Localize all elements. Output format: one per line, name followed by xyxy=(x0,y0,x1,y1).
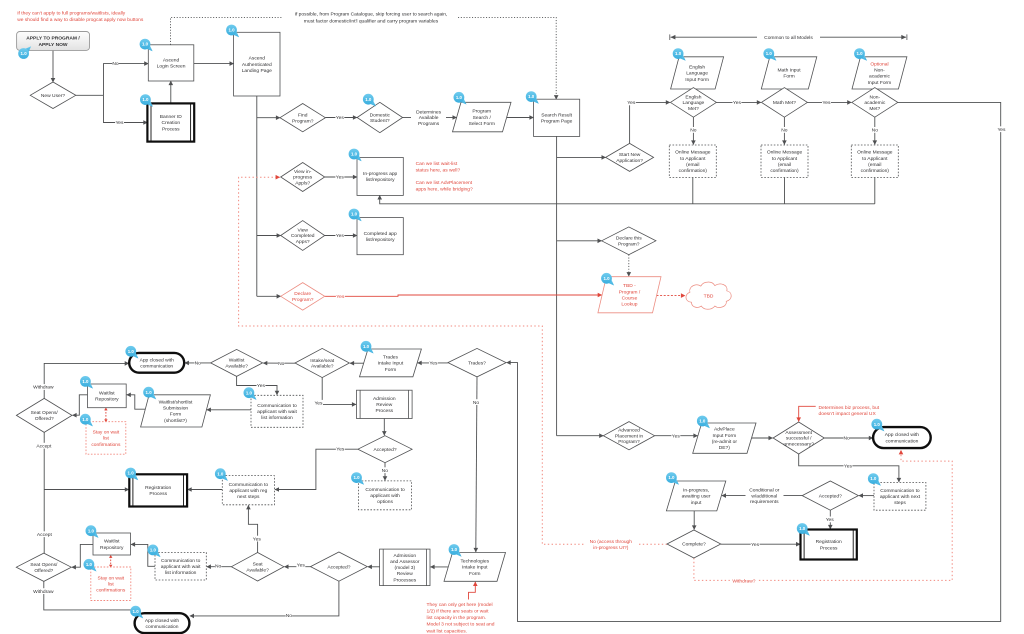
svg-text:Withdraw: Withdraw xyxy=(33,385,54,391)
svg-text:Language: Language xyxy=(686,71,708,77)
badge 1.0 xyxy=(601,273,614,286)
svg-text:list capacity in the program.: list capacity in the program. xyxy=(427,615,487,621)
svg-text:Registration: Registration xyxy=(145,485,171,491)
svg-text:Yes: Yes xyxy=(429,361,438,367)
badge 1.0 xyxy=(143,387,156,400)
svg-text:Program Page: Program Page xyxy=(541,119,573,125)
svg-text:1.0: 1.0 xyxy=(870,476,877,481)
svg-text:Waitlist/shortlist: Waitlist/shortlist xyxy=(159,399,193,405)
decision Domestic Student? xyxy=(357,102,403,132)
wire english msg drop xyxy=(692,178,694,204)
svg-text:New User?: New User? xyxy=(41,93,65,99)
svg-text:awaiting user: awaiting user xyxy=(682,494,711,500)
wire accepted BL no xyxy=(190,581,339,616)
badge 1.0 xyxy=(140,39,153,52)
svg-text:to Applicant: to Applicant xyxy=(862,156,888,162)
decision View Completed Apps? xyxy=(281,221,325,251)
badge 1.0 xyxy=(854,48,867,61)
wire trades no down xyxy=(476,377,477,552)
badge 1.0 xyxy=(351,472,364,485)
decision Waitlist Available? xyxy=(211,349,263,376)
svg-text:TBD -: TBD - xyxy=(623,283,636,289)
badge 1.0 xyxy=(363,94,376,107)
wire accept to registration xyxy=(44,489,129,491)
svg-text:1.0: 1.0 xyxy=(86,562,93,567)
wire to view completed xyxy=(257,235,281,237)
svg-text:Program /: Program / xyxy=(619,289,641,295)
wire declare program yes red xyxy=(325,295,602,296)
svg-text:Program?: Program? xyxy=(618,241,640,247)
svg-text:Yes: Yes xyxy=(627,100,636,106)
message Online Message to Applicant (email confirmation) 3 xyxy=(851,145,898,178)
svg-text:Program?: Program? xyxy=(292,118,314,124)
svg-text:Math Met?: Math Met? xyxy=(773,100,796,106)
svg-text:No: No xyxy=(872,128,879,134)
badge 1.0 xyxy=(84,559,97,572)
wire intake no xyxy=(263,362,295,364)
decision Seat Available? xyxy=(231,553,284,582)
svg-text:status here, as well?: status here, as well? xyxy=(416,167,461,173)
svg-text:must factor domestic/int'l qua: must factor domestic/int'l qualifier and… xyxy=(304,18,439,24)
svg-text:(re-admit or: (re-admit or xyxy=(712,439,738,445)
svg-text:1.0: 1.0 xyxy=(528,94,535,99)
badge 1.0 xyxy=(449,544,462,557)
svg-text:(model 3): (model 3) xyxy=(394,565,415,571)
svg-text:unnecessary?: unnecessary? xyxy=(783,442,814,448)
svg-text:Yes: Yes xyxy=(253,536,262,542)
svg-text:Yes: Yes xyxy=(672,434,681,440)
svg-text:Accepted?: Accepted? xyxy=(327,564,350,570)
wire login to landing xyxy=(194,63,234,65)
wire assessment red note xyxy=(799,406,816,421)
svg-text:1.0: 1.0 xyxy=(451,547,458,552)
svg-text:applicant with wait: applicant with wait xyxy=(161,564,201,570)
svg-text:applicant with: applicant with xyxy=(370,493,400,499)
svg-text:English: English xyxy=(689,65,705,71)
message Online Message to Applicant (email confirmation) 1 xyxy=(669,145,716,178)
wire math met yes xyxy=(807,101,851,103)
svg-text:App closed with: App closed with xyxy=(140,357,175,363)
wire nonacademic met no xyxy=(874,117,876,144)
message Communication to applicant with options xyxy=(359,481,412,510)
svg-text:1.0: 1.0 xyxy=(365,97,372,102)
svg-text:Form: Form xyxy=(469,571,480,577)
svg-text:1.0: 1.0 xyxy=(150,548,157,553)
svg-text:confirmation): confirmation) xyxy=(770,168,799,174)
svg-text:1.0: 1.0 xyxy=(351,152,358,157)
wire banner to login xyxy=(170,81,172,103)
svg-text:AdvPlace: AdvPlace xyxy=(714,427,735,433)
svg-text:Conditional or: Conditional or xyxy=(749,487,780,493)
wire yes to banner xyxy=(104,95,148,122)
badge 1.0 xyxy=(797,523,810,536)
datastore Waitlist Repository (bottom) xyxy=(93,533,131,555)
svg-text:Advanced: Advanced xyxy=(618,428,640,434)
svg-text:Review: Review xyxy=(397,571,414,577)
svg-text:Online Message: Online Message xyxy=(857,150,893,156)
svg-text:Input Form: Input Form xyxy=(685,77,709,83)
svg-text:Completed: Completed xyxy=(291,233,315,239)
process Ascend Login Screen xyxy=(148,45,194,81)
svg-text:Yes: Yes xyxy=(822,100,831,106)
wire seat BL withdraw xyxy=(44,581,136,610)
svg-text:1.0: 1.0 xyxy=(21,51,28,56)
wire tbd to cloud red dashed xyxy=(657,295,686,297)
svg-text:Yes: Yes xyxy=(826,517,835,523)
wire comm BL to repo xyxy=(131,544,155,566)
message Online Message to Applicant (email confirmation) 2 xyxy=(761,145,808,178)
svg-text:confirmation): confirmation) xyxy=(861,168,890,174)
svg-text:Yes: Yes xyxy=(336,447,345,453)
svg-text:Seat Opens/: Seat Opens/ xyxy=(30,562,58,568)
wire assessment no xyxy=(824,437,873,439)
svg-text:list: list xyxy=(103,436,110,442)
svg-text:If possible, from Program Cata: If possible, from Program Catalogue, ski… xyxy=(295,12,448,18)
svg-text:Yes: Yes xyxy=(336,115,345,121)
svg-text:doesn't impact general UX: doesn't impact general UX xyxy=(819,411,877,417)
decision Declare this Program? xyxy=(602,227,656,255)
wire view inprogress yes xyxy=(325,176,357,178)
svg-text:Offered?: Offered? xyxy=(35,416,54,422)
svg-text:Optional: Optional xyxy=(870,61,888,67)
badge 1.0 xyxy=(361,341,374,354)
terminator App closed with communication (mid-left) xyxy=(129,353,184,373)
wire dotted continued xyxy=(458,17,556,99)
predefined process Registration Process (right) xyxy=(801,530,857,560)
decision Accepted? (mid-left) xyxy=(358,436,412,463)
wire comm to submission form xyxy=(207,409,251,411)
svg-text:academic: academic xyxy=(864,100,885,106)
input Waitlist/shortlist Submission Form (shortlist?) xyxy=(141,395,211,427)
wire advplace yes xyxy=(655,435,698,437)
svg-text:Program: Program xyxy=(472,109,491,115)
badge 1.0 xyxy=(125,346,138,359)
wire red withdraw loop xyxy=(694,450,952,580)
predefined process Registration Process (left) xyxy=(129,474,187,506)
svg-text:Program?: Program? xyxy=(292,297,314,303)
badge 1.0 xyxy=(86,525,99,538)
svg-text:Offered?: Offered? xyxy=(34,568,53,574)
svg-text:Registration: Registration xyxy=(816,539,842,545)
message Communication to applicant with wait list information (mid) xyxy=(251,395,303,427)
svg-text:Submission: Submission xyxy=(163,406,189,412)
svg-text:Yes: Yes xyxy=(257,383,266,389)
wire waitlist avail yes xyxy=(237,376,277,395)
svg-text:Accept: Accept xyxy=(37,532,53,538)
wire determines to search form xyxy=(446,117,457,119)
svg-text:TBD: TBD xyxy=(704,293,714,299)
svg-text:Assessment: Assessment xyxy=(785,430,812,436)
svg-text:1.0: 1.0 xyxy=(142,97,149,102)
svg-text:Program?: Program? xyxy=(618,439,640,445)
svg-text:Search /: Search / xyxy=(473,115,492,121)
svg-text:Start New: Start New xyxy=(619,152,641,158)
wire assessment yes xyxy=(799,454,899,482)
svg-text:Processes: Processes xyxy=(393,577,416,583)
svg-text:Placement in: Placement in xyxy=(615,433,644,439)
wire domestic to determines xyxy=(403,117,412,119)
wire repo to seat TL xyxy=(73,395,88,415)
wire to advanced placement xyxy=(557,435,604,437)
decision New User? xyxy=(30,82,76,109)
predefined process Admission and Assessor (model 3) Review Processes xyxy=(380,549,430,586)
svg-text:to Applicant: to Applicant xyxy=(680,156,706,162)
svg-text:Yes: Yes xyxy=(998,127,1007,133)
svg-text:w/additional: w/additional xyxy=(751,493,777,499)
decision Declare Program? (red) xyxy=(281,283,325,311)
decision Trades? xyxy=(448,348,506,377)
svg-text:options: options xyxy=(377,499,393,505)
wire to start new application xyxy=(557,156,606,158)
svg-text:1.0: 1.0 xyxy=(142,42,149,47)
svg-text:Accept: Accept xyxy=(36,443,52,449)
svg-text:Repository: Repository xyxy=(95,397,119,403)
svg-text:Intake Input: Intake Input xyxy=(462,565,488,571)
input TBD - Program / Course Lookup (red) xyxy=(598,277,661,313)
svg-text:Seat Opens/: Seat Opens/ xyxy=(31,410,59,416)
badge 1.0 xyxy=(349,149,362,162)
badge 1.0 xyxy=(80,414,93,427)
svg-text:Select Form: Select Form xyxy=(469,121,495,127)
decision Start New Application? xyxy=(606,143,654,171)
svg-text:Available?: Available? xyxy=(246,567,269,573)
svg-text:Landing Page: Landing Page xyxy=(242,68,272,74)
wire repo BL to seat xyxy=(72,544,93,567)
badge 1.0 xyxy=(697,416,710,429)
svg-text:input: input xyxy=(691,500,702,506)
svg-text:list: list xyxy=(108,581,115,587)
badge 1.0 xyxy=(763,48,776,61)
svg-text:View in-: View in- xyxy=(294,169,312,175)
input In-progress, awaiting user input xyxy=(666,481,725,511)
wire ARP to accepted xyxy=(383,419,385,436)
badge 1.0 xyxy=(130,606,143,619)
decision Assessment successful / unnecessary? xyxy=(773,422,824,454)
badge 1.0 xyxy=(125,468,138,481)
svg-text:Process: Process xyxy=(149,491,167,497)
svg-text:Find: Find xyxy=(298,113,308,119)
wire accept vertical xyxy=(43,432,45,553)
svg-text:No: No xyxy=(112,61,119,67)
svg-text:(email: (email xyxy=(778,162,791,168)
svg-text:Yes: Yes xyxy=(733,100,742,106)
decision Find Program? xyxy=(280,104,325,132)
input Non-academic Input Form (Optional) xyxy=(852,57,907,89)
svg-text:No: No xyxy=(473,400,480,406)
svg-text:successful /: successful / xyxy=(786,436,812,442)
decision Intake/seat Available? xyxy=(295,348,349,377)
wire declare this program dotted xyxy=(628,255,630,277)
badge 1.0 xyxy=(673,48,686,61)
wire accepted ML no xyxy=(384,463,386,481)
svg-text:Trades?: Trades? xyxy=(468,360,486,366)
svg-text:Input Form: Input Form xyxy=(868,80,892,86)
svg-text:requirements: requirements xyxy=(750,499,779,505)
svg-text:Ascend: Ascend xyxy=(249,56,266,62)
wire accepted BL yes xyxy=(284,566,310,568)
wire regnext to registration xyxy=(188,489,223,491)
wire landing down xyxy=(256,96,258,296)
svg-text:Form: Form xyxy=(170,412,181,418)
wire red no-access loop xyxy=(239,177,667,544)
svg-text:Search Result: Search Result xyxy=(541,112,572,118)
input Technologies Intake Input Form xyxy=(444,553,506,582)
terminator App closed with communication (bottom-right) xyxy=(873,427,931,448)
svg-text:Technologies: Technologies xyxy=(460,559,489,565)
svg-text:Apps?: Apps? xyxy=(296,239,310,245)
svg-text:1.0: 1.0 xyxy=(217,471,224,476)
note Stay on wait list confirmations (top) xyxy=(86,422,126,455)
decision Complete? xyxy=(667,530,721,558)
decision Math Met? xyxy=(761,88,807,118)
svg-text:No: No xyxy=(382,468,389,474)
badge 1.0 xyxy=(454,92,467,105)
input Program Search / Select Form xyxy=(453,102,512,132)
input Trades Intake Input Form xyxy=(360,349,422,377)
terminator App closed with communication (bottom-left) xyxy=(135,613,190,633)
svg-text:Repository: Repository xyxy=(100,545,124,551)
svg-text:confirmation): confirmation) xyxy=(679,168,708,174)
svg-text:applicant with wait: applicant with wait xyxy=(257,409,297,415)
decision English Language Met? xyxy=(670,88,716,118)
svg-text:Process: Process xyxy=(375,408,393,414)
svg-text:DE?): DE?) xyxy=(719,445,731,451)
svg-text:apps here, while bridging?: apps here, while bridging? xyxy=(416,186,473,192)
svg-text:Creation: Creation xyxy=(162,120,181,126)
svg-text:1.0: 1.0 xyxy=(363,344,370,349)
svg-text:1.0: 1.0 xyxy=(128,471,135,476)
wire accepted BR yes xyxy=(829,510,831,529)
svg-text:Programs: Programs xyxy=(418,121,440,127)
svg-text:Available?: Available? xyxy=(311,364,334,370)
svg-text:English: English xyxy=(685,94,701,100)
process Ascend Authenticated Landing Page xyxy=(234,32,280,96)
svg-text:Declare: Declare xyxy=(294,291,311,297)
predefined process Admission Review Process xyxy=(357,390,413,418)
svg-text:list information: list information xyxy=(261,415,293,421)
svg-text:Available: Available xyxy=(419,115,439,121)
svg-text:1.0: 1.0 xyxy=(88,528,95,533)
svg-text:Yes: Yes xyxy=(336,233,345,239)
svg-text:Domestic: Domestic xyxy=(370,112,391,118)
svg-text:communication: communication xyxy=(885,438,918,444)
svg-text:Waitlist: Waitlist xyxy=(104,539,120,545)
svg-text:Ascend: Ascend xyxy=(163,58,180,64)
wire search form to result page xyxy=(507,117,534,119)
svg-text:Accepted?: Accepted? xyxy=(373,447,396,453)
svg-text:Communication to: Communication to xyxy=(257,403,297,409)
svg-text:communication: communication xyxy=(140,364,173,370)
svg-text:1.0: 1.0 xyxy=(82,417,89,422)
svg-text:Admission: Admission xyxy=(373,396,396,402)
svg-text:Can we list AdvPlacement: Can we list AdvPlacement xyxy=(416,180,473,186)
wire english met yes xyxy=(716,101,761,103)
svg-text:Application?: Application? xyxy=(616,158,643,164)
svg-text:No: No xyxy=(286,613,293,619)
svg-text:Seat: Seat xyxy=(253,562,264,568)
svg-text:Authenticated: Authenticated xyxy=(242,62,272,68)
svg-text:Review: Review xyxy=(376,402,393,408)
svg-text:In-progress app: In-progress app xyxy=(363,171,398,177)
svg-text:Model 3 not subject to seat an: Model 3 not subject to seat and xyxy=(427,622,495,628)
svg-text:1.0: 1.0 xyxy=(766,51,773,56)
svg-text:Yes: Yes xyxy=(844,464,853,470)
svg-text:No: No xyxy=(781,128,788,134)
wire red note zigzag xyxy=(469,582,476,600)
svg-text:They can only get here (model: They can only get here (model xyxy=(427,602,493,608)
svg-text:Stay on wait: Stay on wait xyxy=(93,430,120,436)
svg-text:Met?: Met? xyxy=(688,106,699,112)
svg-text:Math Input: Math Input xyxy=(777,68,801,74)
input AdvPlace Input Form (re-admit or DE?) xyxy=(693,423,756,453)
note No (access through in-progress UI?) xyxy=(584,537,639,552)
svg-text:1.0: 1.0 xyxy=(799,526,806,531)
svg-text:1.0: 1.0 xyxy=(456,95,463,100)
svg-text:(email: (email xyxy=(686,162,699,168)
badge 1.0 xyxy=(226,25,239,38)
svg-text:In-progress,: In-progress, xyxy=(683,488,709,494)
svg-text:(email: (email xyxy=(868,162,881,168)
badge 1.0 xyxy=(871,419,884,432)
svg-text:Process: Process xyxy=(820,545,838,551)
svg-text:we should find a way to disabl: we should find a way to disable progcat … xyxy=(17,17,144,23)
svg-text:View: View xyxy=(297,227,308,233)
svg-text:Met?: Met? xyxy=(869,106,880,112)
message Communication to applicant with wait list information (bottom) xyxy=(155,553,206,581)
badge 1.0 xyxy=(140,94,153,107)
svg-text:App closed with: App closed with xyxy=(885,432,920,438)
wire login dotted to search result xyxy=(171,17,284,44)
svg-text:Online Message: Online Message xyxy=(675,150,711,156)
svg-text:Lookup: Lookup xyxy=(621,302,637,308)
svg-text:Withdraw: Withdraw xyxy=(33,589,54,595)
badge 1.0 xyxy=(868,473,881,486)
svg-text:applicant with next: applicant with next xyxy=(880,494,921,500)
wire new user branch xyxy=(76,94,104,96)
wire advplace form to assessment xyxy=(752,437,773,439)
badge 1.0 xyxy=(18,46,31,59)
svg-text:1.0: 1.0 xyxy=(874,422,881,427)
svg-text:Yes: Yes xyxy=(336,175,345,181)
message Communication to applicant with reg next steps xyxy=(222,476,274,505)
svg-text:No: No xyxy=(195,361,202,367)
wire to declare program xyxy=(257,295,281,297)
wire view completed yes xyxy=(325,235,357,237)
wire conditional to inprogress xyxy=(722,495,746,497)
svg-text:Communication to: Communication to xyxy=(161,558,201,564)
svg-text:1.0: 1.0 xyxy=(133,609,140,614)
svg-text:1.0: 1.0 xyxy=(699,419,706,424)
svg-text:1.0: 1.0 xyxy=(228,28,235,33)
wire waitlist avail no xyxy=(185,362,211,364)
svg-text:Yes: Yes xyxy=(297,563,306,569)
wire inprogress to complete xyxy=(693,511,695,530)
svg-text:progress: progress xyxy=(293,175,313,181)
svg-text:Complete?: Complete? xyxy=(682,542,706,548)
note Stay on wait list confirmations (bottom) xyxy=(91,567,131,601)
svg-text:(shortlist?): (shortlist?) xyxy=(164,418,187,424)
svg-text:Available?: Available? xyxy=(225,364,248,370)
svg-text:Communication to: Communication to xyxy=(880,488,920,494)
svg-text:Withdraw?: Withdraw? xyxy=(732,579,755,585)
wire accepted ML yes xyxy=(275,449,358,489)
wire intake yes to ARP xyxy=(322,378,356,405)
svg-text:applicant with reg: applicant with reg xyxy=(229,488,267,494)
svg-text:1.0: 1.0 xyxy=(246,390,253,395)
decision View in-progress Appls? xyxy=(281,163,325,192)
svg-text:list information: list information xyxy=(165,570,197,576)
svg-text:in-progress UI?): in-progress UI?) xyxy=(593,545,628,551)
